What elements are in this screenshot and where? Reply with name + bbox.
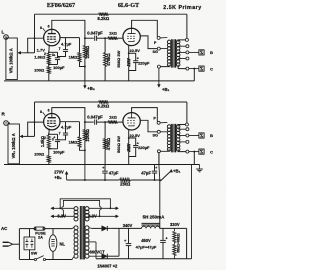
beam tube V2 6L6-GT (123, 113, 140, 130)
resistor 8.2k ohm NFB (99, 100, 109, 103)
6L6 cathode network (128, 46, 130, 54)
svg-text:270V: 270V (54, 169, 64, 174)
resistor 1M ohm screen feed (79, 38, 81, 53)
svg-text:1N4007 ×2: 1N4007 ×2 (97, 263, 118, 268)
6L6 screen wire (140, 36, 157, 49)
diode D1 1N4007 (102, 226, 107, 231)
bleeder resistor 68k+68k (173, 228, 175, 231)
svg-text:+: + (124, 239, 126, 243)
svg-text:+: + (102, 166, 104, 170)
svg-text:100µF: 100µF (53, 149, 65, 154)
EF86 screen wire (60, 37, 80, 39)
capacitor 4.7uF screen bypass (65, 38, 67, 50)
svg-text:1.7V: 1.7V (37, 48, 46, 53)
net stub +B2 channel 1 (84, 81, 86, 86)
capacitor 47uF decoupling B (154, 165, 156, 171)
power transformer core (80, 206, 85, 259)
resistor 560 ohm 3W cathode (128, 138, 130, 144)
resistor 23k ohm decoupling (120, 178, 130, 181)
svg-text:1.8kΩ: 1.8kΩ (40, 135, 45, 147)
svg-text:+B₁: +B₁ (162, 87, 170, 92)
svg-text:B: B (210, 50, 213, 55)
terminal SG lug (157, 130, 160, 133)
svg-text:2.5K Primary: 2.5K Primary (163, 5, 201, 11)
svg-text:6L6-GT: 6L6-GT (118, 2, 140, 9)
mains primary winding (74, 226, 78, 230)
svg-text:0.047µF: 0.047µF (87, 31, 103, 36)
fuse 2A (35, 227, 44, 230)
svg-text:200Ω: 200Ω (34, 68, 45, 73)
svg-text:22.5V: 22.5V (129, 48, 140, 53)
feedback top line (35, 13, 99, 15)
svg-text:SW: SW (31, 251, 38, 256)
output transformer core (171, 39, 177, 67)
diode D2 1N4007 (102, 254, 107, 259)
terminal P lug (157, 36, 160, 39)
wire wiper to grid (25, 52, 35, 54)
ground symbol channel 2 bus (199, 165, 201, 167)
switch SW (34, 258, 36, 260)
HV top lead to rectifier (89, 227, 92, 230)
svg-text:100µF: 100µF (53, 65, 65, 70)
svg-text:68kΩ+68kΩ: 68kΩ+68kΩ (177, 233, 181, 253)
feedback line corner down (34, 14, 36, 53)
svg-text:VR₁ 100kΩ A: VR₁ 100kΩ A (9, 48, 14, 73)
svg-text:220µF: 220µF (138, 145, 150, 150)
+B1 branch arrow (160, 172, 170, 181)
pot wiper arrow (22, 135, 25, 137)
pin 8 stub (43, 28, 46, 31)
filter capacitor 47uF second (162, 228, 164, 240)
wire common to ground bus (193, 69, 195, 81)
svg-text:6.3V: 6.3V (88, 213, 97, 218)
volume pot VR VR&#8322; 100k&#937; A (8, 124, 19, 164)
svg-text:470kΩ: 470kΩ (106, 137, 111, 150)
svg-text:5H 250mA: 5H 250mA (143, 214, 166, 219)
svg-text:560Ω 3W: 560Ω 3W (116, 136, 121, 153)
svg-text:220kΩ: 220kΩ (85, 45, 90, 58)
svg-text:4.7µF: 4.7µF (61, 41, 72, 46)
pentode V1 EF86 (44, 29, 60, 45)
6L6 screen wire (140, 120, 157, 132)
wire wiper to grid (25, 135, 35, 137)
AC top wire with fuse (19, 228, 35, 230)
svg-text:+B₁: +B₁ (173, 169, 181, 174)
secondary common wire (178, 65, 186, 69)
resistor 1k ohm grid stopper (105, 37, 108, 39)
svg-text:6.3V: 6.3V (57, 213, 66, 218)
HV bottom lead (89, 255, 102, 257)
junction +B2 feed channel2 (84, 165, 86, 181)
resistor 200 ohm feedback leg (47, 156, 50, 163)
B+ rail right corner (186, 228, 188, 258)
6L6 plate wire (132, 108, 158, 122)
heater jumper loop lower with hops (62, 210, 64, 216)
capacitor 47uF decoupling A (104, 165, 106, 171)
secondary winding (176, 125, 180, 129)
feedback line corner down (34, 102, 36, 136)
wire D2 to B+ riser (107, 255, 119, 257)
6L6 plate wire (132, 20, 158, 36)
svg-text:1MΩ: 1MΩ (69, 54, 79, 59)
wire jack to pot (7, 36, 9, 38)
input jack L (4, 35, 9, 40)
resistor 1.8k ohm cathode (47, 135, 50, 149)
filter capacitor 47uF first (128, 228, 130, 243)
resistor 8.2k ohm NFB (99, 13, 109, 16)
svg-text:0.047µF: 0.047µF (87, 115, 103, 120)
svg-text:6: 6 (48, 109, 50, 113)
secondary tap lugs (178, 128, 186, 130)
svg-text:1kΩ: 1kΩ (109, 114, 117, 119)
EF86 plate wire (52, 108, 85, 123)
choke core bars (142, 222, 160, 224)
svg-text:SG: SG (152, 133, 158, 137)
choke 5H 250mA (142, 226, 160, 228)
svg-text:47µF+47µF: 47µF+47µF (136, 244, 157, 249)
svg-text:23kΩ: 23kΩ (120, 181, 131, 186)
NFB takeoff lug (178, 40, 185, 42)
svg-text:+: + (53, 136, 55, 140)
EF86 cathode lead (48, 45, 51, 53)
svg-text:330V: 330V (170, 222, 180, 227)
primary bottom feed wire (160, 149, 169, 151)
EF86 cathode lead (48, 129, 51, 135)
PSU ground riser from channel2 bus (191, 165, 193, 259)
secondary 8 ohm wire to terminal (189, 51, 199, 53)
svg-text:8: 8 (40, 110, 42, 114)
AC bottom wire with switch SW (19, 259, 34, 261)
svg-text:7: 7 (59, 47, 61, 51)
svg-text:EF86/6267: EF86/6267 (47, 2, 75, 9)
svg-text:560Ω 3W: 560Ω 3W (116, 50, 121, 67)
svg-text:AC: AC (1, 226, 8, 231)
line filter capacitor box (24, 237, 35, 250)
resistor 1M ohm screen feed (79, 122, 81, 137)
EF86 plate wire (52, 20, 85, 38)
svg-text:1.8kΩ: 1.8kΩ (34, 55, 46, 60)
svg-text:B: B (210, 133, 213, 138)
AC plug (3, 241, 9, 243)
capacitor 0.047uF coupling (85, 121, 94, 123)
pot wiper arrow (20, 52, 25, 54)
secondary common wire (178, 149, 186, 151)
svg-text:SG: SG (152, 50, 158, 54)
HV secondary winding 600VCT (85, 226, 89, 230)
capacitor 100uF cathode bypass (49, 51, 58, 53)
primary bottom feed wire (160, 65, 169, 67)
ground bottom rail (96, 258, 192, 260)
capacitor 220uF cathode bypass (129, 138, 136, 145)
+B2 rail (67, 179, 120, 181)
svg-text:VR₂ 100kΩ A: VR₂ 100kΩ A (11, 133, 16, 158)
terminal P lug (157, 121, 160, 124)
heater winding 6.3V left (74, 207, 78, 211)
svg-text:NL: NL (60, 242, 66, 247)
6L6 cathode network (128, 130, 130, 138)
resistor 1k ohm grid stopper (105, 121, 108, 123)
net stub +B1 channel 1 (158, 81, 160, 85)
svg-text:P: P (153, 116, 156, 120)
B+ top rail (110, 227, 141, 229)
heater winding 6.3V right (85, 207, 89, 211)
terminal SG lug (157, 47, 160, 50)
svg-text:L: L (2, 30, 5, 35)
wire common to ground bus (193, 152, 195, 165)
svg-text:C: C (210, 149, 213, 154)
svg-text:220kΩ: 220kΩ (85, 128, 90, 141)
svg-text:8: 8 (40, 26, 42, 30)
pentode V1 EF86 (44, 114, 60, 130)
svg-text:1kΩ: 1kΩ (109, 30, 117, 35)
input jack R (4, 121, 9, 126)
svg-text:200Ω: 200Ω (34, 151, 45, 156)
ground bus (4, 164, 200, 166)
HV center tap (89, 241, 96, 243)
svg-text:C: C (210, 66, 213, 71)
node grid junction (104, 37, 106, 39)
svg-text:1MΩ: 1MΩ (69, 139, 79, 144)
svg-text:8.2kΩ: 8.2kΩ (97, 104, 109, 109)
node cathode bottom (48, 148, 50, 150)
svg-text:6: 6 (48, 24, 50, 28)
svg-text:47µF: 47µF (109, 170, 119, 175)
NFB takeoff lug (178, 125, 185, 127)
resistor 220k ohm plate load (84, 122, 86, 129)
capacitor 100uF cathode bypass (49, 133, 58, 135)
svg-text:4.7µF: 4.7µF (61, 125, 72, 130)
capacitor 4.7uF screen bypass (65, 122, 67, 133)
svg-text:+B₂: +B₂ (87, 86, 95, 91)
neon lamp NL (52, 229, 54, 235)
primary winding (167, 125, 171, 129)
pin 8 stub (43, 112, 46, 115)
svg-text:+B₂: +B₂ (54, 175, 62, 180)
output transformer core (171, 124, 177, 152)
resistor 470k ohm grid leak (104, 122, 106, 138)
primary winding (167, 40, 171, 44)
svg-text:220µF: 220µF (138, 60, 150, 65)
wire plug to split (13, 243, 20, 245)
capacitor 0.047uF coupling (85, 37, 94, 39)
wire jack to pot (8, 122, 10, 124)
svg-text:47µF: 47µF (141, 170, 151, 175)
resistor 220k ohm plate load (84, 38, 86, 45)
svg-text:470kΩ: 470kΩ (106, 53, 111, 66)
resistor 200 ohm feedback leg (47, 67, 50, 74)
svg-text:+: + (165, 237, 167, 241)
svg-text:+: + (155, 166, 157, 170)
resistor 470k ohm grid leak (104, 38, 106, 52)
svg-text:2A: 2A (38, 235, 43, 240)
node cathode bottom (48, 64, 50, 66)
svg-text:+: + (53, 54, 55, 58)
heater jumper loop upper (60, 199, 110, 209)
secondary 8 ohm wire to terminal (189, 135, 199, 137)
secondary winding (176, 40, 180, 44)
volume pot VR VR&#8321; 100k&#937; A (6, 38, 17, 80)
svg-text:P: P (154, 41, 157, 45)
feedback top line (35, 101, 99, 103)
secondary tap lugs (178, 45, 186, 47)
resistor 560 ohm 3W cathode (128, 53, 130, 58)
svg-text:22.5V: 22.5V (129, 133, 140, 138)
svg-text:7: 7 (59, 131, 61, 135)
svg-text:8.2kΩ: 8.2kΩ (97, 16, 109, 21)
svg-text:450V: 450V (141, 238, 151, 243)
beam tube V2 6L6-GT (123, 28, 140, 45)
resistor 1.8k ohm cathode (47, 53, 50, 64)
capacitor 220uF cathode bypass (129, 53, 136, 60)
feed +B1 riser to channel 2 (158, 152, 160, 165)
node grid junction (104, 121, 106, 123)
EF86 screen wire (60, 121, 80, 123)
svg-text:340V: 340V (123, 223, 133, 228)
+B2 rail up arrow (66, 174, 68, 180)
ground bus (4, 80, 194, 82)
